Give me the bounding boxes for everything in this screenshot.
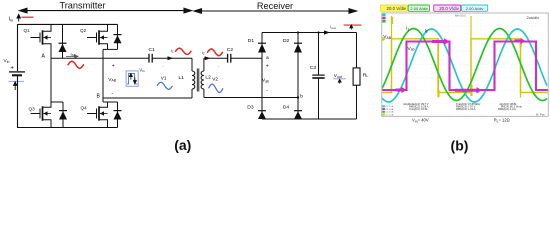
- scope trace VAB (yellow square wave): [382, 39, 548, 93]
- svg-text:Iout: Iout: [330, 24, 335, 30]
- svg-text:Vin: Vin: [4, 58, 10, 64]
- battery Vin: [9, 71, 25, 73]
- wire: secondary top to C2 with I2 arrow: [204, 57, 228, 59]
- svg-text:C2: C2: [227, 47, 234, 53]
- svg-text:C3: C3: [310, 65, 317, 71]
- scope trace I1 (green sine): [382, 29, 547, 101]
- svg-text:C4 2.0A: C4 2.0A: [385, 105, 393, 108]
- resistor RL: [356, 33, 358, 68]
- svg-text:I1: I1: [171, 48, 174, 54]
- svg-text:V2: V2: [212, 77, 218, 82]
- scope graticule: [382, 13, 548, 116]
- svg-text:(b): (b): [451, 138, 469, 154]
- wire: top rail: [18, 23, 118, 25]
- svg-text:20.0 V/div: 20.0 V/div: [439, 6, 459, 11]
- svg-text:Q1: Q1: [24, 28, 31, 33]
- svg-text:VIN= 40V: VIN= 40V: [412, 118, 429, 124]
- svg-text:C3 2.0A: C3 2.0A: [385, 108, 393, 111]
- svg-text:V1: V1: [161, 75, 167, 80]
- svg-text:L1: L1: [179, 75, 185, 81]
- svg-text:-: -: [112, 91, 114, 97]
- wire: Q4 drain link: [103, 101, 118, 103]
- svg-text:C1 2.0A: C1 2.0A: [385, 113, 393, 116]
- wire: left rail upper: [17, 24, 19, 71]
- svg-text:VAB: VAB: [383, 34, 391, 40]
- wire: node A line to C1: [51, 57, 149, 59]
- svg-text:Vab: Vab: [262, 78, 269, 84]
- svg-text:b: b: [300, 93, 303, 99]
- svg-text:D2: D2: [283, 38, 290, 44]
- svg-text:1.31 A: 1.31 A: [468, 107, 476, 111]
- red sine I1: [176, 48, 192, 54]
- body diode of Q2: [117, 24, 119, 49]
- svg-text:20.0 V/div: 20.0 V/div: [387, 6, 407, 11]
- svg-text:+: +: [112, 64, 115, 70]
- wire: C2 to node a: [231, 57, 262, 59]
- scope trace I2 (cyan sine): [382, 29, 547, 102]
- svg-text:Mkr 50.0: Mkr 50.0: [455, 14, 466, 18]
- wire: Q3 drain link: [51, 101, 63, 103]
- svg-text:RL: RL: [363, 72, 369, 78]
- svg-text:D4: D4: [283, 105, 290, 111]
- svg-text:L2: L2: [205, 74, 211, 80]
- svg-text:10.6k: 10.6k: [421, 107, 428, 111]
- wire: primary bottom to node B: [103, 97, 192, 99]
- svg-text:(a): (a): [174, 137, 191, 153]
- oscilloscope screen: [382, 13, 548, 116]
- svg-text:Vin: Vin: [139, 67, 144, 73]
- svg-text:I1: I1: [406, 26, 409, 32]
- svg-text:2.00 A/div: 2.00 A/div: [466, 6, 484, 11]
- capacitor C2: [228, 54, 231, 63]
- svg-text:+: +: [10, 64, 14, 71]
- svg-text:RL= 12Ω: RL= 12Ω: [494, 118, 510, 124]
- wire: Q2 source link to node B leg: [103, 48, 118, 50]
- svg-text:1.2 A: 1.2 A: [510, 107, 516, 111]
- svg-text:Vab: Vab: [408, 46, 415, 52]
- diode D1: [261, 33, 263, 59]
- body diode of Q3: [62, 102, 64, 128]
- magenta cursor arrows: [396, 38, 526, 94]
- scope trace Vab (magenta square wave): [382, 42, 548, 91]
- svg-text:VAB: VAB: [108, 77, 116, 83]
- svg-text:A: A: [42, 54, 46, 60]
- svg-text:2.00 A/div: 2.00 A/div: [410, 6, 428, 11]
- body diode of Q4: [117, 102, 119, 128]
- oscilloscope channel box 3 (magenta 20.0 V/div): [434, 5, 461, 11]
- wire: C1 to transformer with I1 arrow: [152, 57, 192, 59]
- svg-text:Receiver: Receiver: [257, 1, 293, 11]
- svg-text:M. Pos: M. Pos: [536, 113, 545, 117]
- capacitor C1: [149, 54, 152, 63]
- Receiver span arrow: [194, 9, 357, 14]
- svg-text:-: -: [266, 88, 268, 94]
- wire: left rail lower: [17, 75, 19, 127]
- wire: receiver top rail: [262, 32, 357, 34]
- wire: receiver bottom rail: [262, 118, 357, 120]
- transistor Q4: [87, 102, 108, 128]
- svg-text:+: +: [266, 63, 269, 69]
- svg-text:I2: I2: [425, 28, 428, 34]
- diode D4: [297, 98, 299, 120]
- transistor Q3: [31, 102, 52, 128]
- svg-text:.: .: [163, 63, 164, 68]
- svg-text:Vout: Vout: [334, 73, 342, 79]
- transistor Q2: [87, 24, 108, 49]
- capacitor C3: [318, 33, 320, 76]
- svg-text:I2: I2: [202, 50, 205, 56]
- svg-text:.: .: [218, 63, 219, 68]
- svg-text:B: B: [97, 93, 101, 99]
- transformer core: [197, 69, 199, 92]
- inductor L2 (secondary): [203, 58, 205, 71]
- scope channel legend bottom-left: [382, 105, 385, 107]
- wire: bottom rail: [17, 127, 118, 129]
- svg-text:D3: D3: [247, 105, 254, 111]
- svg-text:Q2: Q2: [80, 28, 87, 33]
- svg-text:2us/div: 2us/div: [527, 15, 540, 20]
- diode D3: [261, 58, 263, 119]
- Transmitter span arrow: [20, 8, 192, 13]
- svg-text:D1: D1: [248, 38, 255, 44]
- wire: secondary bottom to node b: [204, 97, 298, 99]
- svg-text:a: a: [266, 56, 269, 61]
- oscilloscope channel box 2 (green 2.00 A/div): [408, 5, 429, 11]
- svg-text:Transmitter: Transmitter: [59, 1, 105, 11]
- oscilloscope channel box 4 (cyan 2.00 A/div): [462, 5, 488, 11]
- oscilloscope channel box 1 (yellow 20.0 V/div): [380, 5, 407, 11]
- diode D2: [297, 33, 299, 98]
- svg-text:RMS(C4):: RMS(C4):: [498, 107, 510, 111]
- blue box square wave annotation with Vin: [126, 71, 138, 86]
- svg-text:Iin: Iin: [9, 17, 14, 23]
- red sine I2: [208, 49, 223, 56]
- Vin DC annotation blue line with up arrow: [8, 80, 24, 82]
- body diode of Q1: [62, 24, 64, 58]
- transistor Q1: [31, 24, 52, 58]
- svg-text:Q3: Q3: [29, 106, 36, 111]
- svg-text:C1: C1: [149, 47, 156, 53]
- svg-text:C2 2.0A: C2 2.0A: [385, 111, 393, 114]
- svg-text:RMS(C4):: RMS(C4):: [456, 107, 468, 111]
- svg-text:Q4: Q4: [81, 105, 88, 110]
- scope channel position markers: [382, 14, 385, 23]
- svg-text:Freq(C1):: Freq(C1):: [409, 107, 420, 111]
- inductor L1 (primary): [191, 58, 193, 71]
